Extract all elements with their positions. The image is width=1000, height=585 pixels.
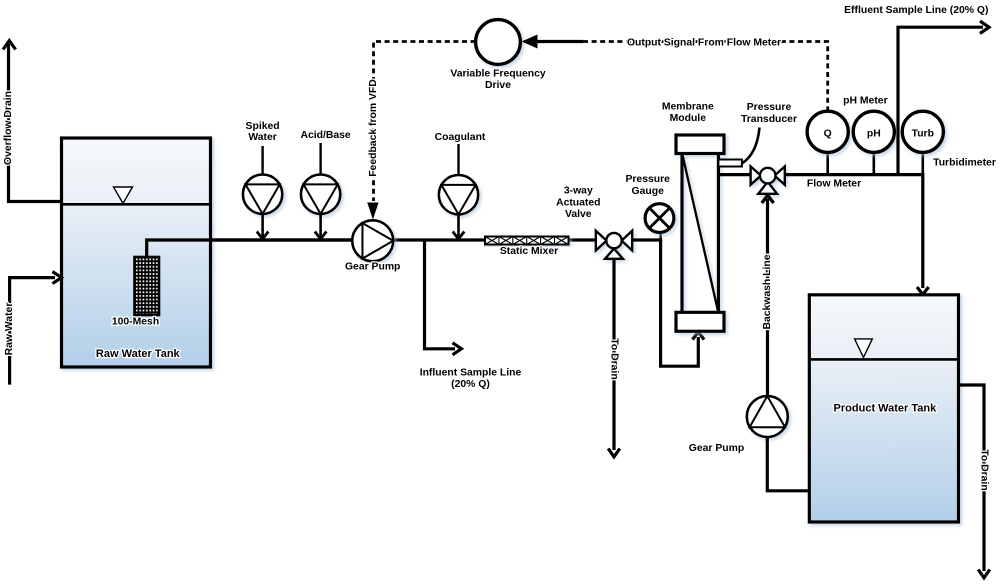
svg-text:pH: pH: [867, 129, 881, 140]
svg-text:Membrane: Membrane: [662, 102, 714, 113]
backwash pump outlet wire: [767, 437, 809, 491]
turbidimeter instrument: [902, 111, 943, 152]
3-way actuated valve: [596, 231, 632, 259]
backwash up arrow: [762, 195, 774, 203]
overflow drain wire: [9, 44, 62, 202]
svg-text:Q: Q: [824, 129, 832, 140]
coagulant supply wire: [457, 144, 459, 175]
raw water arrow: [53, 272, 62, 284]
svg-text:Gauge: Gauge: [632, 186, 665, 197]
svg-text:Coagulant: Coagulant: [435, 132, 486, 143]
svg-text:Pressure: Pressure: [747, 102, 792, 113]
backwash line wire: [766, 199, 769, 396]
svg-text:Pressure: Pressure: [625, 174, 670, 185]
svg-text:Acid/Base: Acid/Base: [300, 130, 350, 141]
svg-text:Overflow Drain: Overflow Drain: [3, 91, 14, 165]
effluent sample wire: [898, 27, 983, 174]
wire valve to membrane: [632, 240, 698, 366]
turbidimeter stem: [921, 152, 924, 174]
svg-text:Gear Pump: Gear Pump: [689, 443, 744, 454]
raw tank water line: [63, 203, 209, 206]
raw tank water level marker: [114, 187, 133, 203]
pressure gauge stem: [659, 233, 661, 241]
svg-text:Gear Pump: Gear Pump: [345, 262, 400, 273]
permeate wire membrane to backwash valve: [718, 173, 750, 176]
to drain right wire: [959, 385, 985, 571]
pressure transducer port: [718, 160, 742, 167]
acid/base dosing arrow: [315, 232, 327, 240]
svg-text:Effluent Sample Line (20% Q): Effluent Sample Line (20% Q): [844, 5, 988, 16]
membrane inlet arrow: [693, 332, 705, 340]
backwash 3-way valve: [751, 166, 785, 193]
VFD feedback dashed wire: [374, 42, 476, 202]
flow meter stem: [826, 152, 829, 174]
membrane module: [676, 135, 724, 331]
output signal dashed wire: [583, 42, 828, 111]
overflow drain arrow: [3, 41, 16, 50]
svg-text:Variable Frequency: Variable Frequency: [450, 69, 546, 80]
to drain right arrow: [978, 570, 990, 578]
svg-text:Static Mixer: Static Mixer: [500, 246, 558, 257]
VFD feedback arrow: [367, 203, 378, 220]
svg-text:Influent Sample Line: Influent Sample Line: [420, 368, 522, 379]
svg-text:To Drain: To Drain: [609, 338, 620, 379]
gear pump 2: [747, 396, 788, 437]
svg-text:Product Water Tank: Product Water Tank: [834, 403, 938, 415]
acid/base supply wire: [319, 143, 321, 175]
spiked water dosing arrow: [257, 232, 269, 240]
product tank water level marker: [855, 339, 873, 358]
effluent sample arrow: [980, 21, 989, 33]
spiked water metering pump: [243, 175, 282, 214]
svg-text:Water: Water: [248, 132, 276, 143]
pressure gauge: [645, 204, 674, 233]
svg-text:Transducer: Transducer: [741, 114, 797, 125]
raw water wire: [10, 278, 55, 385]
svg-text:Flow Meter: Flow Meter: [807, 179, 861, 190]
spiked water supply wire: [261, 146, 263, 175]
output signal arrowhead: [522, 35, 538, 49]
acid/base dosing wire: [319, 214, 322, 238]
influent sample wire: [425, 240, 456, 349]
svg-text:Raw Water: Raw Water: [4, 303, 15, 356]
spiked water dosing wire: [261, 214, 264, 238]
100-mesh strainer suction wire: [147, 240, 352, 257]
pressure transducer lead: [743, 128, 760, 164]
flow meter line wire: [785, 175, 923, 288]
output signal wire (solid arrow part): [534, 40, 583, 43]
svg-text:Backwash Line: Backwash Line: [762, 254, 773, 329]
svg-text:Spiked: Spiked: [246, 121, 280, 132]
pH meter instrument: [853, 111, 894, 152]
valve to drain arrow: [608, 449, 620, 457]
product tank water line: [811, 358, 957, 361]
svg-text:Raw Water Tank: Raw Water Tank: [96, 348, 181, 360]
svg-text:pH Meter: pH Meter: [843, 96, 887, 107]
100-mesh strainer: [135, 257, 160, 315]
variable frequency drive: [476, 20, 521, 65]
raw water tank: [62, 138, 211, 367]
acid/base metering pump: [301, 175, 340, 214]
gear pump 1: [352, 220, 393, 261]
svg-text:To Drain: To Drain: [979, 449, 990, 490]
svg-text:Turbidimeter: Turbidimeter: [933, 158, 996, 169]
influent sample arrow: [453, 343, 462, 355]
svg-text:Actuated: Actuated: [556, 198, 600, 209]
coagulant metering pump: [439, 175, 478, 214]
valve to drain wire: [612, 259, 615, 450]
svg-text:Turb: Turb: [912, 129, 934, 140]
svg-text:100-Mesh: 100-Mesh: [112, 317, 159, 328]
svg-text:Output Signal From Flow Meter: Output Signal From Flow Meter: [627, 38, 781, 49]
svg-text:Drive: Drive: [485, 80, 511, 91]
svg-text:Feedback from VFD: Feedback from VFD: [368, 79, 379, 177]
coagulant dosing arrow: [453, 232, 465, 240]
pH meter stem: [872, 152, 875, 174]
coagulant dosing wire: [457, 214, 460, 238]
static mixer: [485, 237, 569, 245]
svg-text:Valve: Valve: [565, 209, 592, 220]
flow meter instrument Q: [807, 111, 848, 152]
main process line: [210, 238, 596, 241]
svg-text:Module: Module: [670, 113, 707, 124]
svg-text:(20% Q): (20% Q): [451, 379, 490, 390]
svg-text:3-way: 3-way: [564, 186, 593, 197]
product water tank: [809, 295, 958, 522]
product tank inlet arrow: [917, 287, 929, 295]
